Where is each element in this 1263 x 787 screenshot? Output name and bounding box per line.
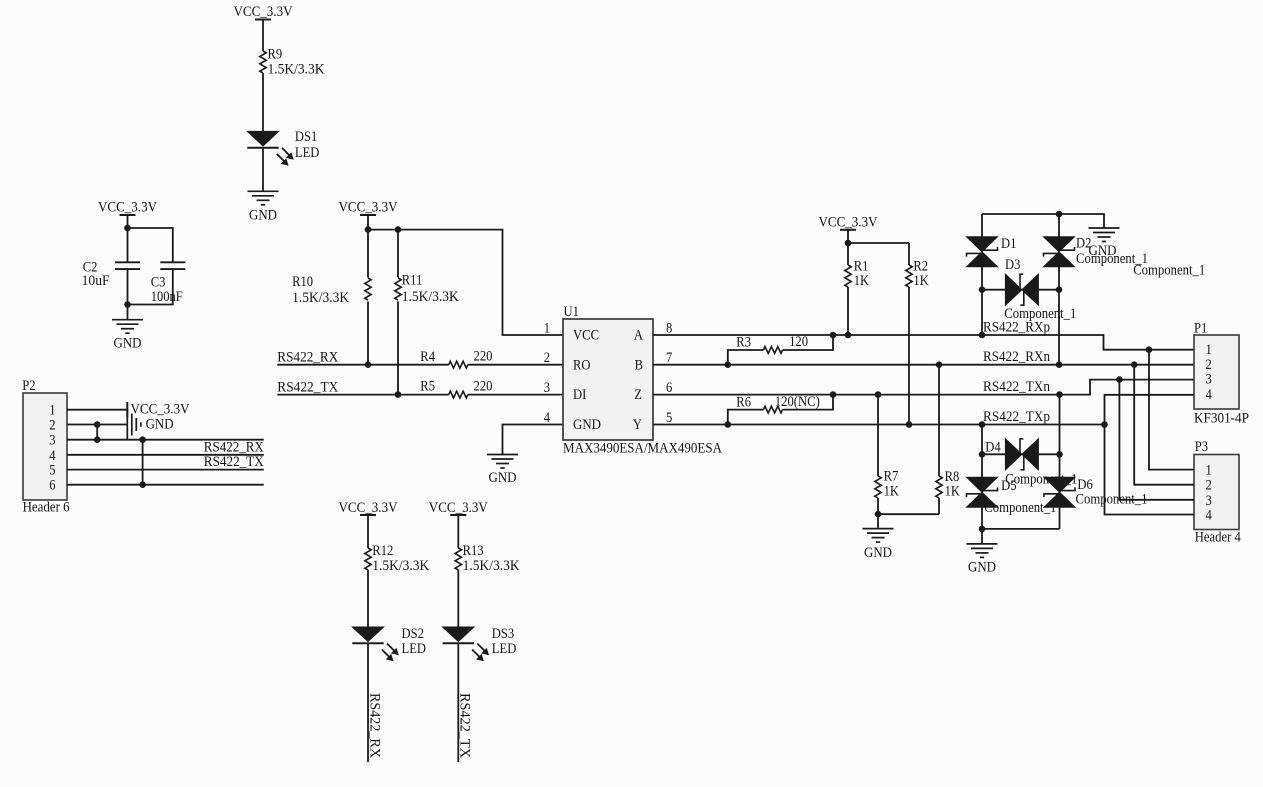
power VCC_3.3V (DS3 column) bbox=[429, 500, 488, 516]
wire DS1 to GND bbox=[262, 148, 264, 192]
svg-text:GND: GND bbox=[146, 416, 174, 432]
svg-text:2: 2 bbox=[1206, 357, 1212, 373]
junction D5 bottom bbox=[979, 526, 986, 533]
IC U1 MAX3490ESA/MAX490ESA bbox=[544, 304, 722, 456]
svg-text:A: A bbox=[634, 328, 643, 344]
svg-text:10uF: 10uF bbox=[82, 273, 110, 289]
junction R1 / A bbox=[845, 332, 852, 339]
svg-text:RS422_TX: RS422_TX bbox=[457, 693, 473, 758]
svg-text:LED: LED bbox=[295, 145, 320, 161]
junction RXn / P3 pin2 riser bbox=[1131, 361, 1138, 368]
junction C2/C3 top bbox=[124, 225, 131, 232]
junction R3 left on B bbox=[725, 361, 732, 368]
junction P2 pin3 a bbox=[94, 436, 101, 443]
wire P2 pin4 net RS422_RX bbox=[67, 454, 264, 456]
svg-text:1K: 1K bbox=[854, 273, 870, 289]
junction D2 top bbox=[1056, 211, 1063, 218]
resistor R8 bbox=[936, 365, 960, 515]
junction D4 left bbox=[979, 451, 986, 458]
wire R12 to DS2 bbox=[367, 570, 369, 627]
svg-text:U1: U1 bbox=[564, 304, 579, 320]
svg-text:MAX3490ESA/MAX490ESA: MAX3490ESA/MAX490ESA bbox=[563, 440, 722, 456]
svg-text:4: 4 bbox=[1206, 387, 1213, 403]
svg-text:220: 220 bbox=[474, 378, 493, 394]
junction RXp / P3 pin1 riser bbox=[1146, 346, 1153, 353]
svg-text:1.5K/3.3K: 1.5K/3.3K bbox=[292, 290, 349, 306]
wire P2 pin2 to GND bbox=[67, 424, 127, 426]
junction TXn jog / P3 pin3 riser bbox=[1116, 376, 1123, 383]
svg-text:3: 3 bbox=[49, 433, 55, 449]
wire P2 pin1 to VCC bbox=[67, 409, 127, 411]
svg-text:RO: RO bbox=[573, 357, 591, 373]
svg-text:GND: GND bbox=[489, 470, 517, 486]
junction P2 pin6 bbox=[139, 481, 146, 488]
connector P2 Header 6 bbox=[22, 378, 70, 516]
ground GND (U1) bbox=[487, 455, 518, 487]
svg-text:GND: GND bbox=[573, 417, 601, 433]
svg-text:LED: LED bbox=[492, 641, 517, 657]
wire C2/C3 top branch bbox=[128, 228, 173, 262]
svg-text:Header 6: Header 6 bbox=[23, 500, 70, 516]
svg-text:DI: DI bbox=[573, 387, 586, 403]
wire R10 branch bbox=[367, 230, 369, 365]
svg-text:3: 3 bbox=[1206, 372, 1212, 388]
wire P2 pin6 bbox=[67, 484, 264, 486]
wire VCC to R9 bbox=[262, 20, 264, 52]
resistor R1 bbox=[845, 243, 869, 335]
junction C2/C3 bottom bbox=[124, 301, 131, 308]
wire D4/D5 branch from TXp bbox=[981, 425, 983, 478]
wire C2 bottom to GND bbox=[127, 269, 129, 320]
LED DS1 bbox=[247, 129, 319, 166]
wire VCC rail to U1 pin1 bbox=[368, 215, 563, 335]
LED DS2 bbox=[352, 626, 426, 661]
wire U1 pin4 to GND bbox=[503, 425, 564, 455]
capacitor C2 bbox=[82, 259, 140, 289]
wire net RS422_TX into U1 pin3 bbox=[277, 394, 563, 396]
svg-text:1: 1 bbox=[544, 320, 550, 336]
capacitor C3 bbox=[151, 262, 186, 305]
connector P1 KF301-4P bbox=[1194, 321, 1249, 427]
resistor R10 bbox=[292, 274, 373, 306]
resistor R3 with jog B to A bbox=[728, 334, 833, 365]
svg-text:VCC: VCC bbox=[573, 328, 599, 344]
svg-text:LED: LED bbox=[402, 641, 427, 657]
svg-text:R12: R12 bbox=[372, 543, 393, 559]
junction D4 right bbox=[1056, 451, 1063, 458]
svg-text:VCC_3.3V: VCC_3.3V bbox=[429, 500, 488, 516]
svg-text:5: 5 bbox=[666, 410, 672, 426]
wire P3 pin1 riser from RXp bbox=[1149, 350, 1194, 470]
connector P3 Header 4 bbox=[1194, 439, 1241, 546]
wire net RS422_RXp (U1 pin8 A) bbox=[653, 335, 1194, 350]
junction P2 pin2 bbox=[94, 421, 101, 428]
junction D3 right on D2 bbox=[1056, 286, 1063, 293]
wire D5/D6 bottoms bbox=[982, 528, 1060, 530]
svg-text:GND: GND bbox=[864, 545, 892, 561]
svg-text:100nF: 100nF bbox=[151, 289, 183, 305]
svg-text:P3: P3 bbox=[1195, 439, 1208, 455]
svg-text:D1: D1 bbox=[1001, 236, 1016, 252]
junction VCC rail / R10 bbox=[365, 226, 372, 233]
svg-text:R8: R8 bbox=[945, 469, 960, 485]
svg-text:GND: GND bbox=[249, 208, 277, 224]
junction R11 / TX bbox=[395, 391, 402, 398]
wire net RS422_RXn (U1 pin7 B) bbox=[653, 364, 1194, 366]
junction VCC / R1 bbox=[845, 240, 852, 247]
junction R6 left on Y bbox=[725, 421, 732, 428]
junction D2 / RXn bbox=[1056, 361, 1063, 368]
wire R9 to DS1 bbox=[262, 73, 264, 131]
svg-text:4: 4 bbox=[1206, 508, 1213, 524]
resistor R9 bbox=[260, 47, 325, 78]
power VCC_3.3V (R10/R11 rail) bbox=[339, 200, 398, 216]
wire R13 to DS3 bbox=[457, 570, 459, 627]
svg-text:R6: R6 bbox=[736, 394, 751, 410]
diode D3 (TVS) bbox=[982, 257, 1076, 322]
power VCC_3.3V (C2/C3) bbox=[98, 200, 157, 216]
wire VCC to R13 bbox=[457, 515, 459, 548]
svg-text:4: 4 bbox=[49, 448, 56, 464]
wire P2 pin5 net RS422_TX bbox=[67, 469, 264, 471]
svg-text:Y: Y bbox=[633, 417, 642, 433]
svg-text:220: 220 bbox=[474, 348, 493, 364]
svg-text:R10: R10 bbox=[292, 274, 313, 290]
svg-text:KF301-4P: KF301-4P bbox=[1194, 411, 1249, 427]
svg-text:1.5K/3.3K: 1.5K/3.3K bbox=[268, 61, 325, 77]
junction R10 / RX bbox=[365, 361, 372, 368]
junction D1 / RXp bbox=[979, 332, 986, 339]
svg-text:Component_1: Component_1 bbox=[1004, 306, 1076, 322]
svg-text:Z: Z bbox=[634, 387, 642, 403]
svg-text:4: 4 bbox=[544, 410, 551, 426]
wire DS3 to port, net RS422_TX bbox=[457, 643, 459, 762]
svg-text:D4: D4 bbox=[985, 439, 1001, 455]
junction TXp / P1 pin4 riser bbox=[1101, 421, 1108, 428]
svg-text:DS1: DS1 bbox=[295, 129, 317, 145]
wire VCC to R1/R2 rail bbox=[848, 230, 909, 243]
svg-text:R11: R11 bbox=[402, 273, 423, 289]
svg-text:P1: P1 bbox=[1194, 321, 1207, 337]
power VCC_3.3V (P2 sideways) bbox=[127, 401, 189, 417]
svg-text:R7: R7 bbox=[884, 469, 899, 485]
svg-text:RS422_TXn: RS422_TXn bbox=[983, 379, 1050, 395]
svg-text:6: 6 bbox=[49, 478, 56, 494]
wire D4/D6 branch from TXn bbox=[1059, 395, 1061, 478]
wire to GND (D5) bbox=[981, 529, 983, 544]
svg-text:RS422_TX: RS422_TX bbox=[204, 454, 264, 470]
power VCC_3.3V (DS2 column) bbox=[339, 500, 398, 516]
wire net RS422_TXn (U1 pin6 Z) bbox=[653, 380, 1194, 395]
svg-text:R1: R1 bbox=[854, 258, 869, 274]
svg-text:RS422_TX: RS422_TX bbox=[277, 379, 338, 395]
resistor R11 bbox=[393, 273, 459, 305]
wire C3 bottom branch bbox=[128, 269, 173, 304]
resistor R5 bbox=[420, 378, 492, 398]
svg-text:VCC_3.3V: VCC_3.3V bbox=[339, 200, 398, 216]
junction R3 right on A bbox=[830, 332, 837, 339]
svg-text:120(NC): 120(NC) bbox=[775, 394, 820, 410]
wire net RS422_RX into U1 pin2 bbox=[277, 364, 563, 366]
svg-text:VCC_3.3V: VCC_3.3V bbox=[98, 200, 157, 216]
svg-text:R4: R4 bbox=[420, 349, 435, 365]
svg-text:2: 2 bbox=[544, 350, 550, 366]
svg-text:R13: R13 bbox=[463, 543, 484, 559]
svg-text:R2: R2 bbox=[913, 258, 928, 274]
junction R6 right on Z bbox=[830, 391, 837, 398]
svg-text:VCC_3.3V: VCC_3.3V bbox=[131, 401, 190, 417]
svg-text:6: 6 bbox=[666, 380, 673, 396]
svg-text:2: 2 bbox=[1206, 478, 1212, 494]
diode D5 (TVS) bbox=[967, 477, 1057, 529]
junction R2 / Y bbox=[906, 421, 913, 428]
svg-text:P2: P2 bbox=[22, 378, 35, 394]
svg-text:GND: GND bbox=[968, 560, 996, 576]
wire P3 pin3 riser from TXn bbox=[1119, 380, 1194, 500]
wire VCC to R12 bbox=[367, 515, 369, 548]
junction D6 top on TXn bbox=[1056, 391, 1063, 398]
svg-text:R5: R5 bbox=[420, 379, 435, 395]
svg-text:Header 4: Header 4 bbox=[1195, 529, 1241, 545]
svg-text:VCC_3.3V: VCC_3.3V bbox=[819, 215, 878, 231]
svg-text:1.5K/3.3K: 1.5K/3.3K bbox=[402, 289, 459, 305]
resistor R2 bbox=[906, 243, 929, 425]
svg-text:R9: R9 bbox=[268, 47, 283, 63]
svg-text:VCC_3.3V: VCC_3.3V bbox=[339, 500, 398, 516]
ground GND (R7/R8) bbox=[863, 529, 894, 562]
resistor R13 bbox=[455, 543, 520, 574]
resistor R4 bbox=[420, 348, 492, 368]
wire R7/R8 bottoms bbox=[878, 513, 939, 515]
junction R8 / B bbox=[936, 361, 943, 368]
wire DS2 to port, net RS422_RX bbox=[367, 643, 369, 762]
svg-text:R3: R3 bbox=[736, 335, 751, 351]
junction D5 top on TXp bbox=[979, 421, 986, 428]
resistor R7 bbox=[875, 395, 899, 515]
svg-text:Component_1: Component_1 bbox=[984, 500, 1056, 516]
svg-text:DS2: DS2 bbox=[402, 626, 424, 642]
wire P2 pin2-pin3 link bbox=[96, 425, 98, 440]
power VCC_3.3V (R1/R2) bbox=[819, 215, 878, 231]
wire VCC to C2 top bbox=[127, 215, 129, 262]
svg-text:RS422_RXn: RS422_RXn bbox=[983, 349, 1050, 365]
wire P2 pin3 bbox=[67, 439, 264, 441]
svg-text:VCC_3.3V: VCC_3.3V bbox=[234, 4, 293, 20]
wire R11 branch bbox=[397, 230, 399, 395]
diode D2 (TVS) bbox=[1044, 214, 1206, 365]
wire to GND (R7/R8) bbox=[877, 514, 879, 528]
svg-text:1.5K/3.3K: 1.5K/3.3K bbox=[463, 558, 520, 574]
svg-text:RS422_RX: RS422_RX bbox=[366, 693, 382, 758]
diode D6 (TVS) bbox=[1044, 477, 1148, 529]
wire top GND rail (D1/D2) bbox=[982, 214, 1104, 228]
svg-text:GND: GND bbox=[114, 335, 142, 351]
svg-text:D5: D5 bbox=[1001, 478, 1016, 494]
svg-text:1: 1 bbox=[1206, 463, 1212, 479]
resistor R6 with jog Y to Z bbox=[728, 394, 833, 425]
ground GND (DS1) bbox=[248, 191, 279, 223]
svg-text:DS3: DS3 bbox=[492, 626, 514, 642]
svg-text:1: 1 bbox=[49, 403, 55, 419]
diode D1 (TVS) bbox=[967, 214, 1017, 335]
ground GND (top right) bbox=[1089, 228, 1120, 259]
svg-text:1.5K/3.3K: 1.5K/3.3K bbox=[372, 558, 429, 574]
svg-text:RS422_RX: RS422_RX bbox=[277, 349, 338, 365]
svg-text:5: 5 bbox=[49, 463, 55, 479]
diode D4 (TVS) bbox=[982, 439, 1077, 488]
svg-text:1: 1 bbox=[1206, 342, 1212, 358]
junction R7 / Z bbox=[875, 391, 882, 398]
wire P3 pin2 riser from RXn bbox=[1134, 365, 1194, 485]
svg-text:3: 3 bbox=[1206, 493, 1212, 509]
ground GND (C2/C3) bbox=[112, 320, 143, 352]
power VCC_3.3V (DS1 column) bbox=[234, 4, 293, 20]
svg-text:D3: D3 bbox=[1005, 257, 1020, 273]
LED DS3 bbox=[443, 626, 517, 661]
ground GND (P2 sideways) bbox=[127, 409, 173, 440]
svg-text:2: 2 bbox=[49, 418, 55, 434]
svg-text:1K: 1K bbox=[945, 484, 961, 500]
junction VCC rail / R11 bbox=[395, 226, 402, 233]
wire P2 pin3-pin6 link bbox=[142, 440, 144, 485]
svg-text:1K: 1K bbox=[913, 273, 929, 289]
svg-text:8: 8 bbox=[666, 320, 672, 336]
svg-text:1K: 1K bbox=[884, 483, 900, 499]
junction P2 pin3 b bbox=[139, 436, 146, 443]
wire net RS422_TXp (U1 pin5 Y) bbox=[653, 424, 1105, 426]
svg-text:3: 3 bbox=[544, 380, 550, 396]
svg-text:120: 120 bbox=[789, 334, 808, 350]
junction R7 bottom bbox=[875, 511, 882, 518]
junction D3 left on D1 bbox=[979, 286, 986, 293]
svg-text:7: 7 bbox=[666, 350, 673, 366]
svg-text:Component_1: Component_1 bbox=[1133, 262, 1205, 278]
svg-text:B: B bbox=[635, 357, 643, 373]
svg-text:D2: D2 bbox=[1076, 235, 1091, 251]
svg-text:RS422_TXp: RS422_TXp bbox=[983, 409, 1050, 425]
ground GND (D5/D6) bbox=[967, 544, 998, 576]
wire P1 pin4 to TXp to P3 pin4 bbox=[1105, 395, 1195, 515]
resistor R12 bbox=[365, 543, 430, 574]
